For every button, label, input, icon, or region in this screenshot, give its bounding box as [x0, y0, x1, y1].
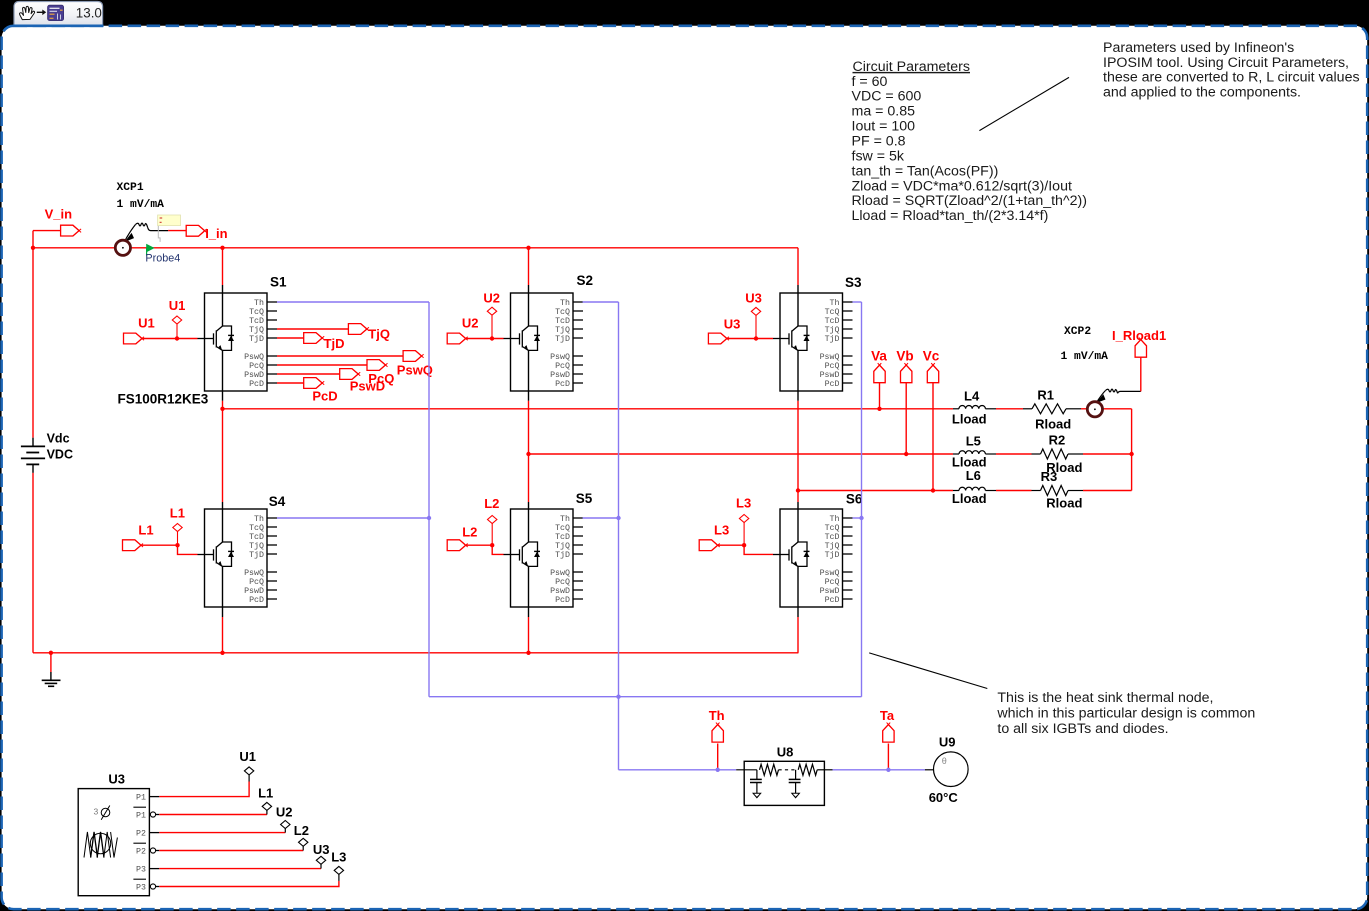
svg-text:XCP1: XCP1 — [117, 182, 144, 194]
svg-text:Vdc: Vdc — [47, 432, 70, 446]
svg-text:L1: L1 — [170, 506, 185, 521]
svg-text:TjQ: TjQ — [555, 541, 570, 551]
wire: S5 emitter to DC- rail — [528, 607, 530, 617]
svg-text:TjD: TjD — [249, 550, 264, 560]
Probe4 green arrow — [146, 244, 154, 253]
svg-text:U3: U3 — [745, 291, 762, 306]
wire: S1 TjD output — [277, 337, 304, 339]
wire: L6 to R3 — [996, 490, 1032, 492]
wire: S1 TjQ output — [277, 328, 348, 330]
resistor R1 (Rload) — [1023, 388, 1081, 432]
svg-text:Iout = 100: Iout = 100 — [852, 119, 916, 135]
svg-text:Lload: Lload — [952, 491, 987, 506]
wire: U3 output U3 — [159, 868, 321, 870]
flag TjD — [304, 333, 323, 344]
flag Va — [874, 365, 885, 383]
probe yellow note box — [158, 215, 181, 242]
svg-text:I_in: I_in — [205, 226, 227, 241]
wire: S1 PcQ output — [277, 364, 367, 366]
svg-text:U1: U1 — [239, 749, 256, 764]
svg-text:S3: S3 — [845, 275, 862, 290]
svg-text:TjD: TjD — [825, 334, 840, 344]
wire: U3 output L3 — [159, 881, 339, 887]
svg-text:PswD: PswD — [820, 587, 840, 596]
node: thermal C / S6 — [859, 516, 863, 520]
svg-text:PswD: PswD — [350, 378, 385, 393]
on-page connector diamond U3 (bottom) — [316, 856, 325, 864]
wire: U3 output L2 — [159, 850, 303, 852]
IGBT module S4 — [198, 494, 286, 607]
battery Vdc VDC — [21, 432, 73, 473]
svg-text:PswD: PswD — [244, 371, 264, 380]
svg-text:Th: Th — [254, 514, 264, 524]
svg-text:L1: L1 — [138, 523, 153, 538]
svg-text:P1: P1 — [136, 793, 146, 802]
wire: S1 collector from top rail — [220, 246, 224, 250]
svg-text:U1: U1 — [169, 298, 186, 313]
svg-text:S1: S1 — [270, 275, 287, 290]
svg-text:V_in: V_in — [45, 207, 73, 222]
wire: R3 to right bus — [1083, 490, 1132, 492]
svg-text:1 mV/mA: 1 mV/mA — [1061, 351, 1109, 363]
svg-text:L6: L6 — [966, 468, 981, 483]
wire: U3 output L1 — [159, 814, 267, 816]
node: V_in corner junction — [31, 246, 35, 250]
wire: L4 to R1 — [996, 408, 1023, 410]
svg-text:Lload: Lload — [952, 454, 987, 469]
svg-text:PcQ: PcQ — [825, 578, 840, 587]
svg-text:TcQ: TcQ — [249, 308, 264, 317]
flag U1 — [124, 333, 143, 344]
wire: S5 Th — [583, 517, 619, 519]
svg-text:U2: U2 — [483, 291, 500, 306]
svg-text:Rload = SQRT(Zload^2/(1+tan_th: Rload = SQRT(Zload^2/(1+tan_th^2)) — [852, 193, 1087, 209]
pin P2(inv) of U3 — [133, 843, 159, 856]
svg-text:ma = 0.85: ma = 0.85 — [852, 104, 916, 120]
wire: L2 diamond stem (black) — [302, 846, 304, 851]
pan hand icon — [20, 6, 35, 19]
node: Ta junction — [886, 768, 890, 772]
node: Th junction — [716, 768, 720, 772]
svg-text:Th: Th — [560, 514, 570, 524]
svg-text:L2: L2 — [484, 496, 499, 511]
wire: thermal vertical C — [861, 302, 863, 697]
wire: L3 gate input — [718, 545, 773, 554]
node: thermal bus junction B — [616, 695, 620, 699]
node: Va junction — [877, 407, 881, 411]
svg-text:P1: P1 — [136, 811, 146, 820]
svg-text:PcD: PcD — [249, 596, 264, 605]
svg-text:TcD: TcD — [825, 317, 840, 326]
flag V_in — [61, 225, 80, 236]
svg-text:L3: L3 — [714, 523, 729, 538]
node: phase C junction at S3/S6 — [796, 488, 800, 492]
svg-text:TcQ: TcQ — [249, 524, 264, 533]
svg-text:Rload: Rload — [1046, 496, 1082, 511]
node: L1 gate junction — [175, 543, 179, 547]
node: L3 gate junction — [742, 543, 746, 547]
svg-text:VDC = 600: VDC = 600 — [852, 89, 922, 105]
svg-text:Lload: Lload — [952, 412, 987, 427]
arrow icon — [37, 10, 46, 16]
wire: S6 emitter to DC- rail corner — [797, 607, 799, 617]
node: phase A junction at S1/S4 — [220, 407, 224, 411]
wire: S3 Th to thermal bus C — [852, 301, 861, 303]
svg-text:TcD: TcD — [249, 317, 264, 326]
svg-text:U2: U2 — [276, 805, 293, 820]
svg-text:Th: Th — [830, 298, 840, 308]
on-page connector diamond U1 — [172, 316, 181, 324]
svg-text:PcQ: PcQ — [555, 578, 570, 587]
wire: Vb stem — [905, 383, 907, 454]
on-page connector diamond L2 (bottom) — [299, 838, 308, 846]
flag PcQ — [367, 360, 386, 371]
svg-text:fsw = 5k: fsw = 5k — [852, 148, 905, 164]
wire: S2 collector from top rail — [526, 246, 530, 250]
wire: L3 diamond stem — [743, 523, 745, 546]
svg-text:TcQ: TcQ — [555, 524, 570, 533]
svg-text:U8: U8 — [777, 745, 794, 760]
wire: U1 diamond stem — [176, 324, 178, 339]
node: thermal B / S5 — [616, 516, 620, 520]
svg-text:TjQ: TjQ — [249, 325, 264, 335]
IGBT module S5 — [504, 491, 593, 607]
inductor L6 (Lload) — [952, 468, 996, 506]
svg-text:TjQ: TjQ — [555, 325, 570, 335]
flag PswQ — [403, 351, 422, 362]
svg-text:Lload = Rload*tan_th/(2*3.14*f: Lload = Rload*tan_th/(2*3.14*f) — [852, 208, 1049, 224]
wire: U3 output U1 — [159, 782, 249, 797]
wire: S1 Th to thermal bus A — [277, 301, 429, 303]
pin P1 of U3 — [136, 793, 159, 802]
node: ground junction on DC- rail — [49, 651, 53, 655]
svg-text:PswD: PswD — [244, 587, 264, 596]
svg-text:Va: Va — [871, 349, 887, 364]
svg-text:PswD: PswD — [550, 371, 570, 380]
on-page connector diamond L1 — [173, 524, 182, 532]
svg-text:PswQ: PswQ — [550, 353, 570, 362]
svg-text:R3: R3 — [1041, 469, 1058, 484]
svg-text:PcD: PcD — [249, 380, 264, 389]
wire: XCP1 output to I_in flag — [168, 230, 186, 232]
svg-text:which in this particular desig: which in this particular design is commo… — [996, 706, 1255, 722]
svg-text:PswD: PswD — [550, 587, 570, 596]
svg-text:L3: L3 — [331, 850, 346, 865]
svg-text:PswQ: PswQ — [397, 362, 433, 377]
node: phase B junction at S2/S5 — [526, 452, 530, 456]
svg-text:PcQ: PcQ — [825, 362, 840, 371]
svg-text:Th: Th — [709, 708, 725, 723]
svg-text:VDC: VDC — [47, 447, 73, 461]
flag L1 — [123, 540, 142, 551]
svg-text:Vb: Vb — [896, 349, 913, 364]
svg-text:U3: U3 — [724, 316, 741, 331]
svg-text:PswQ: PswQ — [820, 353, 840, 362]
svg-text:XCP2: XCP2 — [1064, 326, 1091, 338]
svg-text:L4: L4 — [964, 388, 980, 403]
wire: L3 diamond stem (black) — [338, 874, 340, 881]
svg-text:f = 60: f = 60 — [852, 74, 888, 90]
svg-text:PcD: PcD — [555, 596, 570, 605]
svg-text:U3: U3 — [108, 772, 125, 787]
svg-text:S4: S4 — [269, 494, 286, 509]
wire: phase A rail to load — [223, 408, 954, 410]
svg-text:PswQ: PswQ — [820, 569, 840, 578]
resistor R2 (Rload) — [1032, 432, 1084, 475]
wire: S6 collector from phase C — [797, 491, 799, 503]
wire: left DC rail (bottom section) — [32, 473, 34, 653]
wire: L1 diamond stem — [177, 532, 179, 546]
IGBT module S3 — [773, 275, 862, 391]
svg-text:L3: L3 — [736, 496, 751, 511]
flag I_in — [186, 225, 205, 236]
wire: S3 emitter to phase C rail — [797, 391, 799, 401]
svg-text:PcQ: PcQ — [249, 362, 264, 371]
flag PswD — [340, 369, 359, 380]
wire: S4 Th — [277, 517, 429, 519]
svg-text:TcQ: TcQ — [825, 524, 840, 533]
pin P2 of U3 — [136, 829, 159, 838]
wire: U1 diamond stem (black) — [248, 775, 250, 782]
on-page connector diamond U3 — [751, 307, 760, 315]
svg-text:R2: R2 — [1049, 432, 1066, 447]
annotation pointer line (bottom) — [869, 653, 987, 689]
svg-text:TjQ: TjQ — [249, 541, 264, 551]
wire: U1 gate input — [142, 338, 198, 340]
svg-text:Th: Th — [254, 298, 264, 308]
on-page connector diamond U2 (bottom) — [281, 821, 290, 829]
wire: L2 diamond stem — [491, 524, 493, 546]
svg-text:TcD: TcD — [555, 533, 570, 542]
node: thermal A / S4 — [427, 516, 431, 520]
svg-text:1 mV/mA: 1 mV/mA — [117, 199, 165, 211]
svg-text:U3: U3 — [313, 842, 330, 857]
view tab with zoom level 13.0 — [14, 1, 103, 25]
wire: S1 PswQ output — [277, 355, 403, 357]
wire: S3 collector from top rail corner — [797, 248, 799, 285]
current probe XCP2 — [1061, 326, 1141, 417]
current probe XCP1 — [115, 182, 168, 255]
pin P3(inv) of U3 — [133, 879, 159, 892]
svg-text:3: 3 — [94, 806, 99, 816]
svg-text:FS100R12KE3: FS100R12KE3 — [118, 392, 209, 407]
svg-text:PswQ: PswQ — [244, 569, 264, 578]
wire: U3 diamond stem — [755, 315, 757, 338]
svg-text:Probe4: Probe4 — [145, 253, 180, 265]
flag U3 — [708, 333, 727, 344]
wire: L5 to R2 — [996, 453, 1032, 455]
wire: V_in stem — [33, 230, 61, 232]
IGBT module S6 — [773, 492, 863, 608]
svg-text:PcD: PcD — [825, 380, 840, 389]
wire: Vc stem — [932, 383, 934, 491]
wire: S2 emitter to phase B rail — [528, 391, 530, 401]
svg-text:TcQ: TcQ — [555, 308, 570, 317]
svg-text:S5: S5 — [576, 491, 593, 506]
wire: I_Rload1 flag stem — [1140, 357, 1142, 392]
svg-text:PcQ: PcQ — [249, 578, 264, 587]
on-page connector diamond U1 (bottom) — [244, 767, 253, 775]
wire: load neutral vertical — [1131, 409, 1133, 491]
temperature source U9 (60 C) — [925, 734, 968, 805]
svg-text:R1: R1 — [1037, 388, 1054, 403]
on-page connector diamond L2 — [488, 516, 497, 524]
svg-text:PswQ: PswQ — [244, 353, 264, 362]
svg-text:PcD: PcD — [555, 380, 570, 389]
wire: S1 PcD output — [277, 382, 304, 384]
flag Th — [712, 725, 723, 743]
annotation: circuit parameters list — [852, 59, 1087, 224]
flag L2 — [447, 540, 466, 551]
svg-text:TjQ: TjQ — [368, 326, 390, 341]
schematic window icon — [48, 5, 64, 20]
wire: thermal vertical B — [618, 302, 620, 770]
svg-text:TcD: TcD — [825, 533, 840, 542]
wire: R1 to XCP2 and right bus — [1081, 408, 1132, 410]
svg-text:TjQ: TjQ — [825, 325, 840, 335]
svg-text:PF = 0.8: PF = 0.8 — [852, 134, 906, 150]
flag Vc — [927, 365, 938, 383]
node: Vc junction — [931, 488, 935, 492]
svg-text:P2: P2 — [136, 847, 146, 856]
svg-text:to all six IGBTs and diodes.: to all six IGBTs and diodes. — [997, 721, 1168, 737]
wire: U3 output U2 — [159, 832, 285, 834]
svg-text:L1: L1 — [258, 786, 273, 801]
svg-text:tan_th = Tan(Acos(PF)): tan_th = Tan(Acos(PF)) — [852, 163, 999, 179]
resistor R3 (Rload) — [1032, 469, 1084, 511]
svg-text:TjD: TjD — [249, 334, 264, 344]
wire: S2 Th to thermal bus B — [583, 301, 619, 303]
pin P3 of U3 — [136, 865, 159, 874]
wire: Th flag stem — [717, 744, 719, 770]
svg-text:U9: U9 — [939, 734, 956, 749]
annotation: heat sink note — [996, 690, 1255, 737]
svg-text:IPOSIM tool. Using Circuit Par: IPOSIM tool. Using Circuit Parameters, — [1103, 55, 1349, 71]
flag Vb — [901, 365, 912, 383]
on-page connector diamond L3 — [739, 515, 748, 523]
flag PcD — [304, 378, 323, 389]
wire: S6 Th — [852, 517, 861, 519]
svg-text:TjD: TjD — [555, 334, 570, 344]
wire: S1 PswD output — [277, 373, 340, 375]
IGBT module S1 — [198, 275, 288, 392]
wire: U8 right to U9 — [833, 769, 925, 771]
svg-text:PcQ: PcQ — [555, 362, 570, 371]
node: neutral junction — [1129, 452, 1133, 456]
pin P1(inv) of U3 — [133, 807, 159, 820]
svg-text:and applied to the components.: and applied to the components. — [1103, 84, 1301, 100]
svg-text:PcD: PcD — [825, 596, 840, 605]
wire: L1 diamond stem (black) — [266, 810, 268, 815]
svg-text:13.0: 13.0 — [76, 6, 102, 21]
svg-text:Zload = VDC*ma*0.612/sqrt(3)/I: Zload = VDC*ma*0.612/sqrt(3)/Iout — [852, 178, 1072, 194]
wire: S4 emitter to DC- rail — [222, 607, 224, 617]
annotation: IPOSIM note — [1103, 40, 1360, 100]
annotation pointer line (top) — [979, 77, 1069, 130]
svg-text:60°C: 60°C — [929, 790, 959, 805]
svg-text:This is the heat sink thermal: This is the heat sink thermal node, — [997, 690, 1213, 706]
svg-text:I_Rload1: I_Rload1 — [1112, 328, 1166, 343]
svg-text:TcD: TcD — [249, 533, 264, 542]
svg-text:TjD: TjD — [825, 550, 840, 560]
svg-text:TjD: TjD — [324, 336, 345, 351]
svg-text:S6: S6 — [846, 492, 863, 507]
svg-text:θ: θ — [942, 756, 947, 766]
wire: Ta flag stem — [887, 744, 889, 770]
svg-text:P3: P3 — [136, 865, 146, 874]
wire: U2 diamond stem (black) — [284, 828, 286, 833]
wire: top DC+ rail — [33, 247, 798, 249]
wire: left DC rail (top section) — [32, 248, 34, 438]
node: U1 gate junction — [175, 336, 179, 340]
svg-text:L5: L5 — [966, 434, 981, 449]
three-phase PWM source U3 — [78, 772, 149, 896]
svg-text:Ta: Ta — [880, 708, 895, 723]
svg-text:U1: U1 — [138, 316, 155, 331]
inductor L5 (Lload) — [952, 434, 996, 470]
wire: U2 diamond stem — [491, 315, 493, 338]
flag L3 — [699, 540, 718, 551]
wire: phase C rail to load — [798, 490, 953, 492]
svg-text:P3: P3 — [136, 883, 146, 892]
wire: horizontal thermal bus — [429, 696, 862, 698]
svg-text:PcD: PcD — [312, 388, 337, 403]
wire: R2 to right bus — [1083, 453, 1132, 455]
flag Ta — [883, 725, 894, 743]
svg-text:L2: L2 — [462, 525, 477, 540]
wire: thermal bus to U8 — [619, 769, 737, 771]
node: U2 gate junction — [490, 336, 494, 340]
wire: U3 gate input — [727, 338, 773, 340]
svg-text:PswD: PswD — [820, 371, 840, 380]
wire: U3 diamond stem (black) — [320, 864, 322, 869]
svg-text:L2: L2 — [294, 823, 309, 838]
svg-text:S2: S2 — [577, 273, 594, 288]
svg-text:Th: Th — [560, 298, 570, 308]
svg-text:TjQ: TjQ — [825, 541, 840, 551]
svg-text:these are converted to R, L ci: these are converted to R, L circuit valu… — [1103, 70, 1360, 86]
ground symbol — [42, 653, 61, 687]
node: Vb junction — [904, 452, 908, 456]
wire: S4 collector from phase A — [222, 409, 224, 502]
wire: S5 collector from phase B — [528, 454, 530, 502]
IGBT module S2 — [504, 273, 594, 391]
svg-text:Circuit Parameters: Circuit Parameters — [853, 59, 970, 75]
svg-text:Vc: Vc — [923, 349, 940, 364]
svg-text:TjD: TjD — [555, 550, 570, 560]
flag U2 — [447, 333, 466, 344]
wire: U2 gate input — [466, 338, 504, 340]
on-page connector diamond U2 — [487, 307, 496, 315]
wire: phase B rail to load — [529, 453, 954, 455]
wire: S1 emitter to phase A rail — [222, 391, 224, 401]
wire: L1 gate input — [141, 545, 198, 554]
svg-text:PswQ: PswQ — [550, 569, 570, 578]
flag TjQ — [348, 324, 367, 335]
svg-text:U2: U2 — [462, 315, 479, 330]
solid border under tab — [13, 24, 104, 27]
inductor L4 (Lload) — [952, 388, 996, 426]
thermal network U8 — [736, 745, 832, 806]
svg-text:TcD: TcD — [555, 317, 570, 326]
wire: L2 gate input — [466, 545, 504, 554]
wire: thermal vertical A — [428, 302, 430, 697]
on-page connector diamond L3 (bottom) — [334, 866, 343, 874]
svg-text:Rload: Rload — [1035, 417, 1071, 432]
svg-text:TcQ: TcQ — [825, 308, 840, 317]
wire: Va stem — [879, 383, 881, 409]
svg-text:Th: Th — [830, 514, 840, 524]
